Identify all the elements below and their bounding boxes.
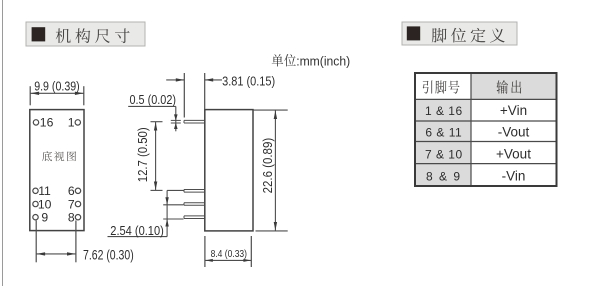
svg-text:-Vout: -Vout (498, 125, 530, 140)
header bullet square (407, 26, 420, 40)
svg-text:7 & 10: 7 & 10 (425, 147, 463, 161)
svg-text:8 & 9: 8 & 9 (426, 170, 462, 184)
svg-text:+Vin: +Vin (500, 103, 527, 118)
pin 1 circle (75, 120, 80, 125)
svg-text:16: 16 (40, 116, 54, 130)
svg-text:8.4 (0.33): 8.4 (0.33) (211, 248, 247, 260)
dimension 12.7 extension ticks (151, 121, 163, 123)
units label 单位:mm(inch) (272, 54, 296, 66)
svg-text:12.7 (0.50): 12.7 (0.50) (135, 127, 150, 182)
svg-text::mm(inch): :mm(inch) (296, 53, 350, 68)
pin 11 circle (33, 188, 38, 193)
svg-text:10: 10 (38, 197, 52, 211)
table header 输出 (496, 80, 521, 93)
dimension 9.9 extension lines (29, 86, 31, 105)
table column divider (470, 73, 472, 186)
pin 6 circle (75, 188, 80, 193)
dimension 22.6 arrows (274, 111, 277, 120)
pin 8 circle (75, 215, 80, 220)
header text 脚位定义 (432, 28, 505, 43)
svg-text:3.81 (0.15): 3.81 (0.15) (222, 73, 275, 88)
dimension 0.5 arrows (174, 114, 178, 120)
dimension 2.54 arrows (165, 197, 168, 205)
svg-text:9: 9 (41, 211, 48, 225)
dimension 9.9 line (30, 92, 84, 94)
pin 7 circle (75, 201, 80, 206)
svg-text:0.5 (0.02): 0.5 (0.02) (130, 92, 177, 107)
table outer border (415, 73, 557, 186)
svg-text:11: 11 (38, 184, 51, 198)
dimension 22.6 line (274, 110, 276, 231)
svg-text:7: 7 (68, 197, 75, 211)
dimension 0.5 leader (128, 105, 176, 107)
pin 10 circle (33, 201, 38, 206)
svg-text:9.9 (0.39): 9.9 (0.39) (34, 78, 79, 93)
table grid row lines (415, 98, 557, 100)
dimension 2.54 extension ticks (167, 189, 183, 191)
svg-text:1: 1 (68, 116, 75, 130)
svg-text:-Vin: -Vin (502, 169, 526, 184)
table header 引脚号 (423, 80, 460, 93)
header bullet square (32, 27, 46, 41)
dimension 9.9 arrows (31, 92, 39, 95)
svg-text:22.6 (0.89): 22.6 (0.89) (260, 138, 275, 194)
dimension 8.4 arrows (205, 259, 213, 262)
table pin number column shading (415, 99, 471, 186)
dimension 7.62 arrows (37, 252, 46, 255)
page left border (2, 0, 4, 286)
side view package outline (205, 110, 253, 231)
side view top pin (184, 119, 205, 121)
dimension 0.5 extension ticks (171, 119, 181, 121)
dimension 12.7 arrows (154, 122, 157, 131)
side view pin row 2 (184, 202, 205, 204)
dimension 3.81 line (166, 79, 184, 81)
section header box: pin definitions (402, 22, 517, 45)
dimension 2.54 leader underline (108, 236, 168, 238)
dimension 8.4 extension lines (204, 236, 206, 267)
side view pin row 1 (184, 189, 205, 191)
dimension 7.62 line (36, 253, 76, 255)
dimension 22.6 extension lines (253, 109, 288, 111)
pin 16 circle (33, 120, 38, 125)
bottom view label 底视图 (42, 151, 76, 161)
svg-text:6: 6 (68, 184, 75, 198)
svg-text:2.54 (0.10): 2.54 (0.10) (110, 223, 164, 238)
svg-text:+Vout: +Vout (496, 146, 531, 161)
dimension 3.81 arrows (176, 78, 185, 81)
dimension 7.62 leader lines (35, 221, 37, 263)
side view pin row 3 (184, 215, 205, 217)
pin 9 circle (33, 215, 38, 220)
bottom view package outline (30, 110, 84, 231)
svg-text:7.62 (0.30): 7.62 (0.30) (83, 247, 134, 262)
table header output cell shading (471, 73, 557, 99)
svg-text:8: 8 (68, 211, 75, 225)
svg-text:1 & 16: 1 & 16 (425, 104, 463, 118)
svg-text:6 & 11: 6 & 11 (425, 126, 462, 140)
header text 机构尺寸 (56, 28, 130, 43)
dimension 12.7 line (155, 122, 157, 191)
pin definition table background (415, 73, 557, 186)
dimension 3.81 extension lines (183, 73, 185, 118)
dimension 8.4 line (205, 259, 251, 261)
section header box: mechanical dimensions (26, 22, 145, 46)
dimension 2.54 line (166, 190, 168, 236)
